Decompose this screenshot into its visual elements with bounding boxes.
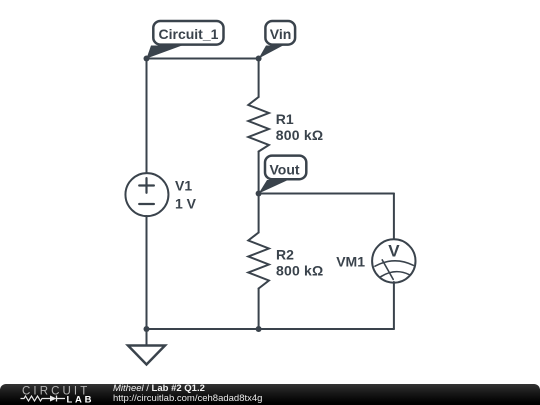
logo diode glyph [50,396,65,402]
ground symbol [128,329,165,365]
resistor R1 zigzag [248,97,269,152]
svg-text:1 V: 1 V [175,196,197,212]
svg-text:R2: R2 [276,247,294,263]
svg-text:800 kΩ: 800 kΩ [276,263,323,279]
svg-text:V: V [388,241,400,260]
CircuitLab logo [0,384,110,405]
node bottom-middle junction [256,326,262,332]
wire R1 bottom to Vout node [258,152,260,194]
svg-text:V1: V1 [175,178,192,194]
resistor R2 zigzag [248,233,269,289]
node bottom-left junction [144,326,150,332]
voltmeter VM1 [372,239,415,282]
wire top horizontal net Circuit_1/Vin [147,58,259,60]
flag label Vin [259,21,296,59]
svg-text:R1: R1 [276,111,294,127]
node Vout junction [256,191,262,197]
svg-text:Vin: Vin [270,26,292,42]
flag label Circuit_1 [147,21,224,59]
svg-text:Circuit_1: Circuit_1 [159,26,219,42]
footer bar [0,384,540,405]
node A (top-left junction) [144,56,150,62]
voltage source V1 circle [125,173,168,216]
flag label Vout [259,156,307,194]
footer line 2: url [113,394,262,404]
wire bottom horizontal net [147,328,394,330]
svg-text:VM1: VM1 [336,254,365,270]
logo resistor glyph [21,396,51,401]
wire R2 bottom to bottom net [258,289,260,330]
wire voltmeter branch vertical down to VM1 top [393,194,395,241]
node Vin junction [256,56,262,62]
wire V1 bottom to ground node [146,216,148,329]
wire left vertical from node A to V1 top [146,59,148,174]
wire Vin down to R1 [258,59,260,98]
svg-text:800 kΩ: 800 kΩ [276,127,323,143]
wire Vout node to voltmeter branch horizontal [259,193,394,195]
svg-text:LAB: LAB [67,394,95,405]
svg-text:Vout: Vout [270,162,300,178]
footer line 1: author / title [113,384,205,394]
wire R2 top from Vout node [258,194,260,233]
wire VM1 bottom to bottom net [393,282,395,329]
